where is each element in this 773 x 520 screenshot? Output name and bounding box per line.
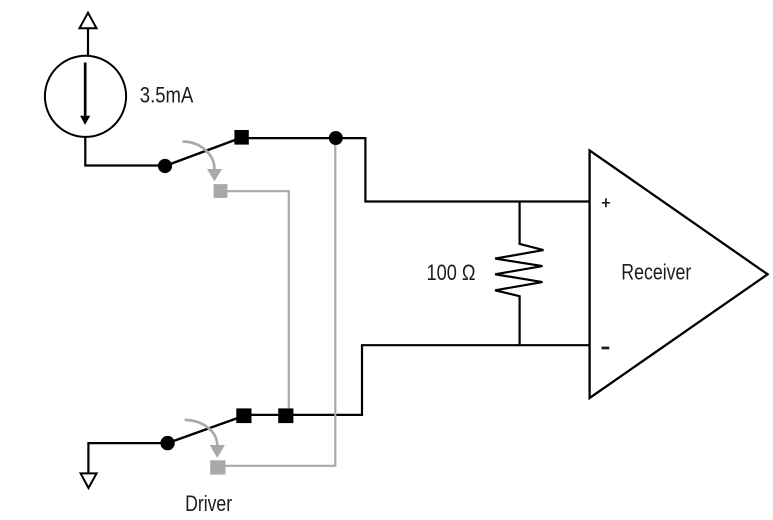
receiver - pin label: [602, 347, 610, 350]
label Receiver: [621, 260, 691, 285]
junction dot: SW2 pole: [160, 436, 174, 450]
label Driver: [185, 491, 232, 516]
svg-text:100 Ω: 100 Ω: [427, 260, 476, 285]
ground arrow (open triangle down): [81, 473, 97, 488]
receiver + pin label: [602, 198, 610, 207]
switch SW2 active contact (black square): [236, 408, 251, 423]
supply arrow (open triangle up): [80, 13, 97, 29]
value label 3.5mA: [140, 83, 194, 108]
junction square: gray crossover to minus net: [278, 408, 293, 423]
junction dot: SW1 pole: [158, 159, 172, 173]
wire: supply arrow to current source: [87, 28, 89, 56]
node A junction dot: [329, 131, 343, 145]
wire: node A to receiver + input: [336, 138, 589, 201]
switch SW1 arm: [165, 137, 242, 166]
switch SW2 arm: [168, 416, 244, 443]
resistor R1: [495, 202, 543, 346]
gray wire: SW2 alternate contact to node A: [225, 141, 336, 466]
gray wire: SW1 alternate contact to minus net: [227, 191, 288, 408]
value label 100 Ohm: [427, 260, 476, 285]
gray toggle arrow of SW2 (arc): [185, 420, 225, 458]
switch SW1 active contact (black square): [234, 130, 248, 145]
gray alternate contact square of SW1: [214, 184, 228, 198]
gray toggle arrow of SW1 (arc): [182, 142, 222, 182]
svg-text:Driver: Driver: [185, 491, 232, 516]
svg-text:3.5mA: 3.5mA: [140, 83, 194, 108]
svg-text:Receiver: Receiver: [621, 260, 691, 285]
current source I1: [45, 56, 126, 137]
wire: receiver - input to lower line: [244, 345, 589, 415]
wire: SW1 contact to node A: [249, 137, 336, 139]
gray alternate contact square of SW2: [210, 460, 225, 474]
wire: SW2 pole to ground: [88, 443, 167, 473]
receiver U1 (triangle): [590, 150, 768, 398]
wire: current source to SW1 pole: [85, 137, 164, 166]
